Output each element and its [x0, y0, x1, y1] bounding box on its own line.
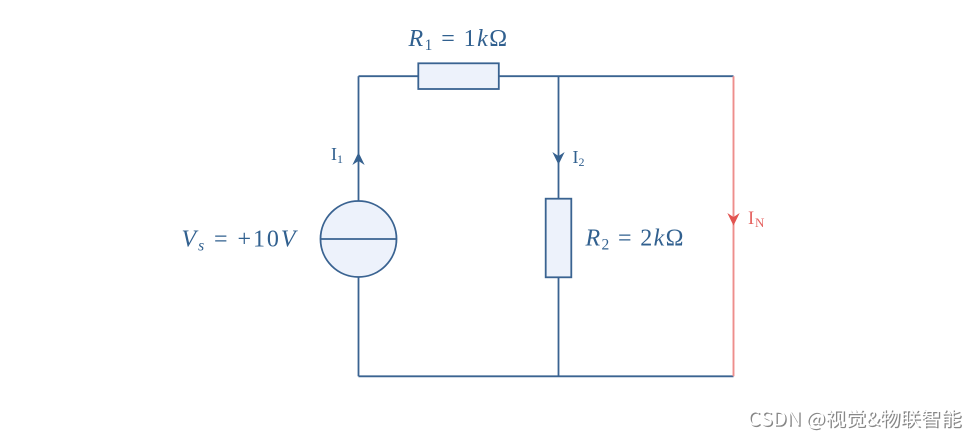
- wire R1 right terminal to top-right corner: [499, 75, 734, 77]
- resistor R1 body: [418, 63, 499, 89]
- wire middle branch bottom (R2 bottom to bottom rail): [558, 277, 560, 376]
- wire right branch (red, Norton short): [733, 76, 735, 376]
- wire bottom rail: [359, 375, 734, 377]
- current arrow I2 (down, on middle branch): [554, 153, 564, 163]
- current arrow I1 (up, on left branch): [354, 154, 364, 164]
- current arrow IN (down, red, on right branch): [729, 214, 739, 224]
- wire top-left segment (node A to R1 left terminal): [359, 75, 419, 77]
- watermark CSDN @...: [749, 409, 962, 430]
- wire left branch vertical (source top to top-left corner): [358, 76, 360, 201]
- svg-text:R1 = 1kΩ: R1 = 1kΩ: [407, 26, 508, 54]
- voltage source Vs body: [321, 201, 397, 277]
- voltage source internal bar: [321, 238, 397, 240]
- resistor R2 body: [546, 199, 572, 278]
- svg-text:R2 = 2kΩ: R2 = 2kΩ: [585, 225, 685, 253]
- wire source bottom to bottom-left corner: [358, 277, 360, 376]
- wire middle branch top (junction to R2 top): [558, 76, 560, 199]
